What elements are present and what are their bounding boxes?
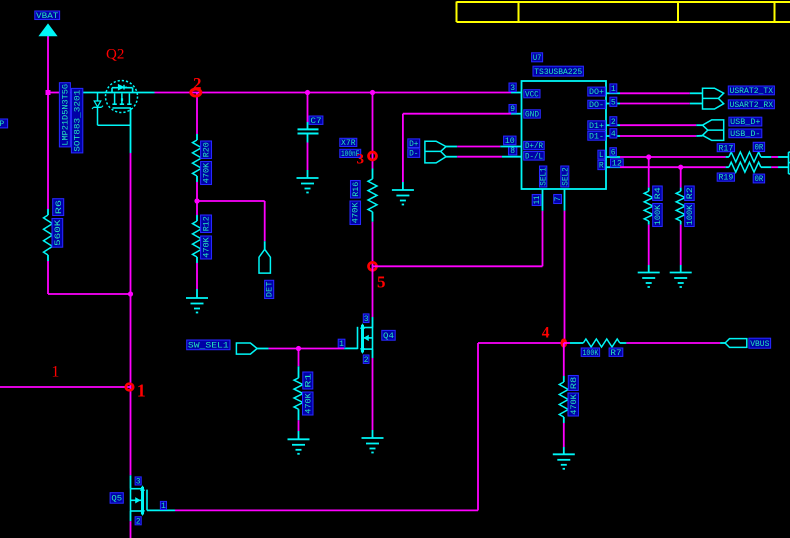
svg-text:D+/R: D+/R (525, 142, 543, 151)
svg-text:SW_SEL1: SW_SEL1 (188, 342, 229, 351)
svg-text:USART2_RX: USART2_RX (730, 101, 774, 110)
svg-text:1: 1 (611, 85, 616, 94)
svg-text:1: 1 (51, 364, 59, 381)
svg-text:3: 3 (136, 478, 141, 487)
svg-text:2: 2 (193, 74, 202, 93)
svg-text:Q2: Q2 (106, 47, 124, 63)
svg-text:USRAT2_TX: USRAT2_TX (730, 87, 774, 96)
svg-text:3: 3 (357, 152, 365, 168)
svg-text:8: 8 (510, 147, 515, 156)
svg-text:6: 6 (611, 148, 616, 157)
svg-text:D-/L: D-/L (525, 152, 543, 161)
svg-text:R20: R20 (203, 142, 212, 157)
svg-text:R8: R8 (570, 377, 579, 390)
svg-text:R17: R17 (719, 144, 734, 153)
svg-text:SEL2: SEL2 (561, 167, 570, 186)
svg-text:100K: 100K (654, 205, 663, 226)
svg-text:2: 2 (136, 517, 141, 526)
svg-text:5: 5 (377, 273, 386, 292)
svg-text:D1-: D1- (589, 132, 604, 141)
svg-text:TS3USBA225: TS3USBA225 (534, 68, 582, 77)
svg-text:470K: 470K (304, 393, 313, 414)
svg-text:R7: R7 (610, 349, 621, 358)
svg-text:SOT883_3201: SOT883_3201 (74, 89, 83, 151)
svg-text:2: 2 (611, 118, 616, 127)
svg-text:Q5: Q5 (111, 495, 122, 504)
svg-text:Q4: Q4 (383, 332, 394, 341)
svg-text:C7: C7 (310, 117, 322, 126)
svg-text:U7: U7 (533, 54, 542, 63)
svg-text:5: 5 (611, 98, 616, 107)
svg-text:SEL1: SEL1 (540, 167, 549, 186)
svg-text:470K: 470K (570, 394, 579, 415)
svg-text:470K: 470K (203, 163, 212, 184)
svg-text:R2: R2 (686, 187, 695, 199)
svg-text:3: 3 (364, 315, 369, 324)
svg-text:100K: 100K (686, 205, 695, 226)
svg-text:11: 11 (533, 196, 542, 205)
svg-text:LMP21D5N3T5G: LMP21D5N3T5G (62, 84, 71, 146)
svg-text:DET: DET (266, 281, 275, 297)
svg-text:R6: R6 (55, 200, 64, 215)
svg-text:USB_D+: USB_D+ (730, 118, 761, 127)
svg-text:VBAT: VBAT (36, 12, 59, 21)
svg-text:10: 10 (505, 137, 515, 146)
svg-text:4: 4 (611, 130, 616, 139)
svg-text:D+: D+ (409, 140, 419, 149)
svg-text:R1: R1 (304, 373, 313, 388)
svg-text:2: 2 (364, 356, 369, 365)
svg-text:0R: 0R (754, 175, 763, 184)
svg-text:R12: R12 (203, 216, 212, 231)
svg-text:4: 4 (542, 325, 550, 342)
svg-text:D-: D- (409, 150, 418, 159)
svg-text:1: 1 (161, 502, 166, 511)
svg-text:X7R: X7R (341, 139, 356, 148)
svg-text:D1+: D1+ (589, 122, 604, 131)
svg-text:GND: GND (525, 111, 539, 120)
svg-text:100K: 100K (582, 349, 598, 358)
svg-text:0R: 0R (754, 144, 763, 153)
svg-text:1: 1 (137, 381, 146, 401)
svg-text:DO-: DO- (589, 101, 604, 110)
svg-text:470K: 470K (352, 202, 361, 223)
svg-text:R19: R19 (719, 174, 734, 183)
svg-text:R16: R16 (352, 181, 361, 196)
svg-text:L: L (599, 151, 604, 160)
svg-text:USB_D-: USB_D- (730, 130, 760, 139)
svg-text:VBUS: VBUS (750, 340, 769, 349)
svg-text:560K: 560K (54, 219, 63, 245)
svg-text:P: P (0, 120, 4, 129)
svg-text:7: 7 (554, 196, 563, 201)
svg-text:3: 3 (510, 84, 515, 93)
svg-text:470K: 470K (203, 237, 212, 258)
svg-text:R: R (599, 162, 604, 171)
svg-text:R4: R4 (654, 187, 663, 199)
svg-text:VCC: VCC (525, 90, 539, 99)
svg-text:DO+: DO+ (589, 88, 604, 97)
